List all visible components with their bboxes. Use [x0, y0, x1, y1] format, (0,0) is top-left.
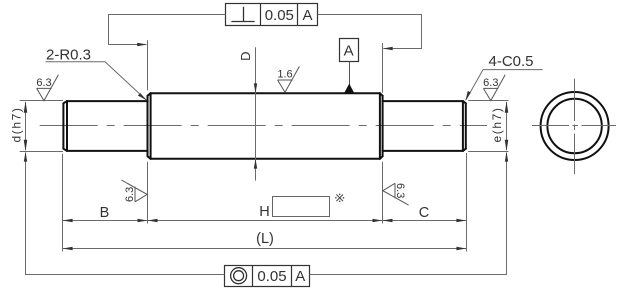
svg-text:B: B [100, 205, 110, 221]
end view outer circle [541, 92, 609, 160]
leader from perpendicularity frame left [109, 15, 226, 47]
reference mark [335, 194, 344, 203]
end view horizontal centerline [532, 125, 616, 127]
shaft right journal outline [383, 101, 466, 151]
svg-text:A: A [344, 43, 354, 60]
extension line shaft right end below [466, 153, 468, 252]
dimension e(h7) line [505, 101, 509, 151]
shaft left journal outline [63, 101, 147, 151]
svg-text:6.3: 6.3 [36, 77, 51, 89]
extension line shoulder right above [382, 43, 384, 93]
svg-text:4-C0.5: 4-C0.5 [489, 53, 534, 70]
extension line e bottom [468, 151, 508, 153]
roughness 6.3 left shoulder rotated [121, 180, 147, 202]
extension line d bottom [20, 151, 63, 153]
svg-text:d(h7): d(h7) [9, 106, 23, 142]
svg-text:2-R0.3: 2-R0.3 [46, 46, 91, 63]
svg-text:6.3: 6.3 [124, 187, 136, 202]
extension line shoulder left below [147, 162, 149, 224]
roughness 6.3 right shoulder rotated [383, 183, 409, 205]
leader concentricity right [310, 152, 509, 275]
svg-text:6.3: 6.3 [483, 77, 498, 89]
extension line shoulder left above [147, 40, 149, 90]
datum A box [340, 39, 359, 62]
dimension D line [254, 47, 257, 180]
svg-text:6.3: 6.3 [394, 183, 406, 198]
concentricity feature control frame [225, 266, 310, 287]
centerline main shaft [40, 125, 487, 127]
leader from perpendicularity frame right [318, 15, 422, 51]
svg-text:1.6: 1.6 [277, 68, 292, 80]
end view vertical centerline [574, 79, 576, 174]
extension line e top [468, 100, 508, 102]
svg-text:A: A [295, 268, 305, 285]
extension line d top [20, 100, 63, 102]
svg-text:H: H [259, 204, 269, 220]
leader 2-R0.3 [46, 62, 147, 101]
datum A triangle [344, 84, 355, 94]
perpendicularity feature control frame [226, 4, 318, 26]
svg-text:D: D [238, 52, 253, 61]
end view inner circle [547, 99, 601, 153]
svg-text:0.05: 0.05 [257, 268, 286, 285]
dimension C line [383, 219, 467, 222]
dimension d(h7) line [24, 101, 28, 151]
perpendicularity symbol [231, 7, 254, 22]
roughness 6.3 left top [37, 75, 59, 101]
svg-text:A: A [302, 7, 312, 24]
svg-text:(L): (L) [256, 231, 274, 247]
leader 4-C0.5 [465, 70, 542, 101]
dimension (L) line [63, 247, 466, 250]
roughness 1.6 top [278, 66, 300, 92]
svg-text:e(h7): e(h7) [490, 106, 504, 142]
dimension B line [63, 219, 148, 222]
svg-text:C: C [419, 205, 429, 221]
datum A leader line [349, 62, 351, 86]
extension line shaft left end below [62, 154, 64, 252]
dimension H line [148, 219, 383, 222]
H value box [273, 197, 330, 217]
shaft large section outline [148, 93, 383, 159]
leader concentricity left [24, 152, 225, 275]
roughness 6.3 right top [483, 75, 505, 101]
concentricity symbol [231, 268, 247, 284]
svg-text:0.05: 0.05 [265, 7, 294, 24]
extension line shoulder right below [382, 162, 384, 224]
